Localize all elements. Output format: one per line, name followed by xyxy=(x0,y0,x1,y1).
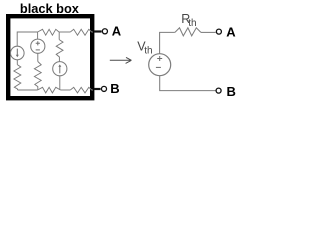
wire Vth bottom xyxy=(160,76,216,91)
wire below V1 xyxy=(37,53,39,61)
wire top-left xyxy=(17,32,37,46)
svg-text:black box: black box xyxy=(20,1,80,16)
wire below I2 xyxy=(59,76,61,90)
wire stem branch-C xyxy=(58,32,60,40)
resistor top-1 xyxy=(38,29,59,35)
wire below I1 xyxy=(16,60,18,65)
resistor branch-B xyxy=(34,62,41,91)
svg-text:th: th xyxy=(144,46,152,57)
black box border xyxy=(8,16,92,98)
terminal A circle xyxy=(102,29,107,34)
wire bottom-middle xyxy=(61,89,71,91)
terminal B right circle xyxy=(216,88,221,93)
svg-text:A: A xyxy=(112,24,122,39)
arrow between circuits xyxy=(110,57,132,63)
resistor top-2 xyxy=(70,29,93,35)
wire top-middle xyxy=(59,31,70,33)
terminal B stub xyxy=(94,88,101,90)
svg-text:B: B xyxy=(227,84,236,99)
voltage source V1 xyxy=(31,39,45,53)
resistor Rth xyxy=(175,28,201,36)
svg-text:A: A xyxy=(226,24,236,39)
resistor branch-C xyxy=(56,40,63,62)
current source I2 (up arrow) xyxy=(53,62,67,76)
resistor bottom-2 xyxy=(70,87,93,93)
svg-text:th: th xyxy=(188,18,196,29)
terminal A right circle xyxy=(216,29,221,34)
voltage source Vth xyxy=(149,54,171,76)
wire Rth to A xyxy=(201,31,216,33)
resistor branch-A xyxy=(14,65,21,90)
wire Vth top xyxy=(160,32,175,53)
terminal B circle xyxy=(101,86,106,91)
resistor bottom-1 xyxy=(38,87,61,93)
current source I1 (down arrow) xyxy=(10,46,24,60)
wire bottom-left xyxy=(18,89,38,91)
terminal A stub xyxy=(94,30,102,32)
svg-text:B: B xyxy=(110,81,119,96)
wire stem V1 xyxy=(37,32,39,39)
